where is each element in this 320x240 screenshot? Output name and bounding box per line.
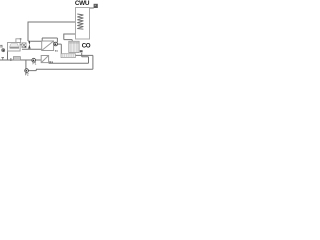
svg-text:P1: P1 (33, 62, 37, 66)
svg-text:P2: P2 (25, 73, 29, 77)
svg-text:CWU: CWU (75, 0, 90, 7)
svg-text:CO: CO (82, 43, 91, 50)
